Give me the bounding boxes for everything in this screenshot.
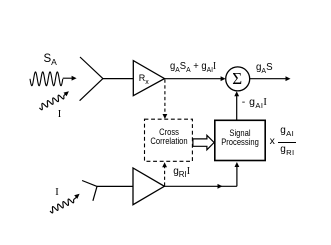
wire S_A incident wave squiggle — [30, 72, 63, 86]
wire interference wave arrow (bottom) — [74, 197, 77, 199]
label I (top wave) — [58, 110, 62, 121]
wire reference output gRI — [164, 185, 237, 187]
signal-processing box — [215, 120, 265, 160]
wire dashed tap from reference output to cross-correlator — [164, 167, 166, 186]
wire Rx output to summer — [165, 78, 222, 80]
label multiply x — [270, 136, 275, 147]
summing junction circle — [226, 67, 250, 91]
label sigma — [232, 70, 242, 87]
antenna A2 (bottom) — [82, 181, 97, 201]
amplifier Rx (triangle) — [133, 61, 164, 96]
wire dashed tap from Rx output to cross-correlator — [164, 80, 166, 116]
cross-correlator box (dashed) — [145, 119, 193, 161]
wire reference output up into signal-processing — [236, 166, 238, 186]
wire interference wave squiggle (bottom) — [50, 199, 74, 213]
label cross correlation — [149, 129, 187, 146]
label SA — [44, 54, 57, 66]
label signal processing — [220, 130, 260, 147]
label gain ratio denominator gRI — [280, 145, 294, 155]
reference amplifier (triangle) — [133, 168, 164, 205]
wire antenna A2 to reference amplifier — [97, 185, 133, 187]
wire antenna A1 to amplifier Rx — [103, 78, 133, 80]
antenna A1 (top) — [80, 57, 103, 101]
block arrow cross-correlator to signal-processing — [193, 135, 214, 150]
label gain ratio numerator gAI — [280, 126, 294, 136]
wire signal-processing to summer (negative input) — [236, 96, 238, 120]
label -gAII — [242, 97, 268, 109]
label Rx (amplifier) — [139, 74, 149, 83]
fraction bar — [278, 142, 295, 143]
wire summer output gAS — [250, 78, 286, 80]
wire interference wave arrow (top) — [64, 94, 66, 96]
wire interference wave squiggle (top) — [39, 95, 64, 110]
label gRII — [173, 167, 190, 177]
label gAS — [256, 62, 273, 73]
label gASA + gAII — [170, 61, 216, 73]
wire S_A wave arrow — [63, 77, 72, 79]
label I (bottom wave) — [55, 188, 59, 199]
